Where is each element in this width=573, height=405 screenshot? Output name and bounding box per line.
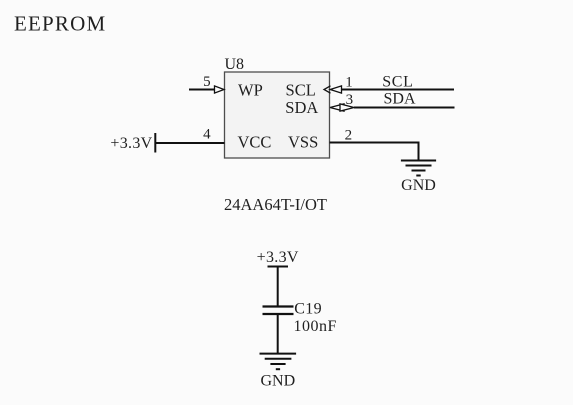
- svg-text:5: 5: [203, 74, 211, 90]
- wire net SCL: [342, 89, 455, 91]
- value 100nF: [294, 318, 337, 335]
- svg-text:VSS: VSS: [288, 132, 318, 151]
- svg-text:U8: U8: [225, 56, 245, 73]
- input arrow pin 1 (SCL): [330, 86, 341, 93]
- wire C19 bottom: [277, 314, 279, 354]
- IC U8 body: [225, 72, 330, 158]
- wire C19 top: [277, 267, 279, 307]
- svg-text:SCL: SCL: [286, 80, 316, 99]
- pin name WP: [238, 80, 263, 99]
- power port +3.3V (C19): [257, 249, 299, 267]
- pin name SCL: [286, 80, 316, 99]
- part number 24AA64T-I/OT: [224, 195, 327, 214]
- input arrow pin 5 (WP): [215, 86, 225, 93]
- svg-text:+3.3V: +3.3V: [257, 249, 299, 266]
- ground GND (U8 VSS): [401, 161, 436, 176]
- pin number 2: [345, 127, 353, 143]
- label GND (C19): [260, 372, 295, 389]
- wire pin 2 (VSS): [330, 143, 419, 161]
- svg-text:SDA: SDA: [285, 98, 318, 117]
- pin number 5: [203, 74, 211, 90]
- svg-text:GND: GND: [401, 177, 436, 194]
- label GND (U8 VSS): [401, 177, 436, 194]
- svg-text:2: 2: [345, 127, 353, 143]
- power port +3.3V (VCC pin): [110, 133, 155, 153]
- svg-text:SDA: SDA: [384, 91, 416, 108]
- svg-text:GND: GND: [260, 372, 295, 389]
- svg-text:+3.3V: +3.3V: [110, 135, 152, 152]
- svg-text:24AA64T-I/OT: 24AA64T-I/OT: [224, 195, 327, 214]
- wire pin 5 (WP): [189, 89, 215, 91]
- svg-text:C19: C19: [294, 301, 322, 318]
- svg-text:VCC: VCC: [238, 132, 272, 151]
- svg-text:3: 3: [346, 92, 354, 108]
- ground GND (C19): [260, 354, 297, 370]
- wire pin 4 (VCC): [155, 142, 224, 144]
- pin number 3: [346, 92, 354, 108]
- pin name VSS: [288, 132, 318, 151]
- svg-text:EEPROM: EEPROM: [14, 12, 106, 36]
- net label SDA: [384, 91, 416, 108]
- net label SCL: [382, 73, 413, 90]
- title EEPROM: [14, 12, 106, 36]
- refdes U8: [225, 56, 245, 73]
- pin number 1: [345, 75, 353, 91]
- pin name VCC: [238, 132, 272, 151]
- pin number 4: [203, 127, 211, 143]
- svg-text:1: 1: [345, 75, 353, 91]
- svg-text:100nF: 100nF: [294, 318, 337, 335]
- svg-text:SCL: SCL: [382, 73, 413, 90]
- bidirectional arrow pin 3 (SDA): [330, 104, 354, 111]
- svg-text:WP: WP: [238, 80, 263, 99]
- pin name SDA: [285, 98, 318, 117]
- input chevron pin 1 (SCL, inside box): [324, 86, 331, 93]
- label C19: [294, 301, 322, 318]
- wire net SDA: [354, 107, 455, 109]
- svg-text:4: 4: [203, 127, 211, 143]
- capacitor C19: [263, 307, 294, 315]
